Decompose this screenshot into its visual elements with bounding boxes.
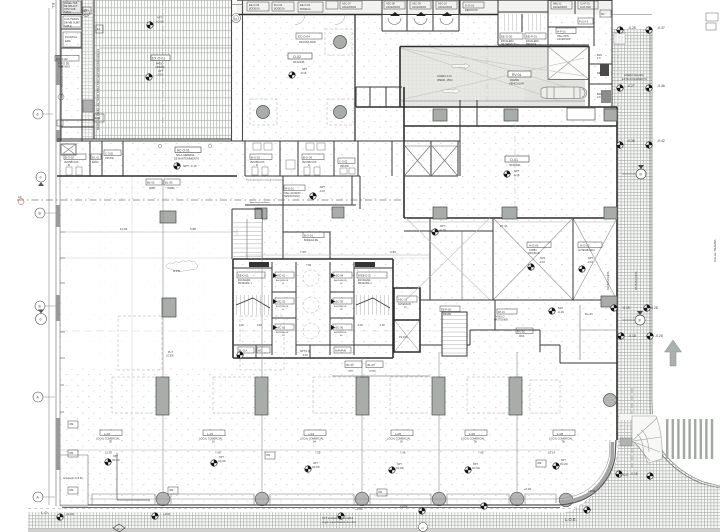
svg-text:-0.16: -0.16 xyxy=(302,354,308,357)
svg-text:TAB E: TAB E xyxy=(64,11,71,14)
wall x460 upper xyxy=(460,100,477,176)
svg-text:B-O-02: B-O-02 xyxy=(65,156,74,160)
svg-text:OFICINAS: OFICINAS xyxy=(528,252,540,255)
svg-text:NPT acabado L.O. a definir: NPT acabado L.O. a definir xyxy=(322,516,354,520)
svg-text:-0.16: -0.16 xyxy=(439,228,446,232)
H-S-01 hall walls xyxy=(283,176,360,232)
svg-text:ASC-06: ASC-06 xyxy=(334,326,344,330)
axis circles left xyxy=(33,109,57,502)
svg-text:±0.00: ±0.00 xyxy=(312,465,320,469)
H rooms diagonals xyxy=(493,218,617,300)
svg-text:SERVICIO: SERVICIO xyxy=(58,66,70,69)
svg-text:d: d xyxy=(40,318,42,322)
patio EX-O-01 fine grid top-left xyxy=(95,0,231,139)
svg-text:ASCENSOR: ASCENSOR xyxy=(276,279,289,282)
svg-text:H-P-01: H-P-01 xyxy=(557,30,566,34)
B-O-01 bodega label xyxy=(303,232,324,238)
grey block on sidewalk mid xyxy=(604,107,617,115)
svg-text:ESCALERA: ESCALERA xyxy=(238,279,251,282)
svg-text:±0.00: ±0.00 xyxy=(396,466,404,470)
toilet stalls small fixtures in band xyxy=(66,143,355,175)
grey up arrow right side xyxy=(665,340,682,366)
svg-text:d: d xyxy=(40,176,42,180)
svg-text:RN BANQUETA: RN BANQUETA xyxy=(634,271,638,290)
svg-text:RESPE: RESPE xyxy=(443,313,452,316)
PL-T box top right of O-01 xyxy=(567,108,595,120)
narrow cells right of ramp xyxy=(589,29,612,107)
svg-text:L.O.: L.O. xyxy=(41,510,49,515)
svg-text:-0.19: -0.19 xyxy=(622,306,630,310)
EE-O-30 / EE-P-01 labels xyxy=(500,33,523,39)
svg-text:DM: DM xyxy=(70,489,74,492)
svg-text:LO.B.E: LO.B.E xyxy=(166,355,174,358)
svg-text:ACERA VELADA: ACERA VELADA xyxy=(624,73,644,77)
svg-text:BODEGA: BODEGA xyxy=(274,8,285,11)
grey columns in hall xyxy=(162,298,176,317)
svg-text:AvPz/PvB: AvPz/PvB xyxy=(335,350,346,353)
svg-text:+0.08: +0.08 xyxy=(588,489,596,493)
EC-O-02 elevator shafts with X xyxy=(404,141,458,176)
svg-text:+0.02: +0.02 xyxy=(524,487,532,491)
svg-text:Abierta por definirse: Abierta por definirse xyxy=(250,201,270,204)
svg-text:-0.27: -0.27 xyxy=(627,84,635,88)
sidewalk bottom outer edge xyxy=(28,529,720,531)
svg-text:D-O-01: D-O-01 xyxy=(465,4,475,8)
svg-text:ASC-04: ASC-04 xyxy=(334,274,344,278)
core outer walls xyxy=(233,259,393,358)
circled marker bottom xyxy=(419,523,428,532)
svg-text:PASILLO: PASILLO xyxy=(495,316,505,319)
svg-text:B-O-03: B-O-03 xyxy=(303,156,312,160)
svg-text:11.63: 11.63 xyxy=(120,227,128,231)
svg-text:B-O-02: B-O-02 xyxy=(251,156,260,160)
O-01 office outline xyxy=(404,87,617,440)
svg-text:ASC-02: ASC-02 xyxy=(276,300,286,304)
svg-text:ASCENSOR: ASCENSOR xyxy=(334,279,347,282)
axis bubble at patio wall top xyxy=(232,14,241,23)
svg-text:CUA TRANS: CUA TRANS xyxy=(64,17,79,21)
storefront glass line xyxy=(60,455,88,505)
svg-text:VEHICULAR: VEHICULAR xyxy=(509,82,524,86)
svg-text:-0.15: -0.15 xyxy=(630,472,638,476)
top-left room labels xyxy=(63,1,81,13)
svg-text:-0.18: -0.18 xyxy=(628,334,636,338)
svg-text:DE SERVICIO: DE SERVICIO xyxy=(501,43,517,46)
svg-text:+0.01: +0.01 xyxy=(163,512,171,516)
svg-text:Plaza Prim: Plaza Prim xyxy=(356,263,369,267)
dimension lines xyxy=(60,229,237,235)
svg-text:R.P.B: R.P.B xyxy=(173,269,180,273)
X survey markers (two filled quarter style) xyxy=(0,0,1,1)
svg-text:DM: DM xyxy=(538,462,542,465)
top band small label boxes xyxy=(247,1,611,17)
svg-text:ESCALERA: ESCALERA xyxy=(358,279,371,282)
H-P-01 label xyxy=(556,28,576,34)
svg-text:según especificación de obra: según especificación de obra xyxy=(322,520,356,524)
core bottom cell labels xyxy=(238,347,254,353)
svg-text:27.41: 27.41 xyxy=(500,224,508,228)
building edge top right xyxy=(612,14,652,16)
svg-text:EX-O-02: EX-O-02 xyxy=(56,57,68,61)
svg-text:ASCENSOR: ASCENSOR xyxy=(438,6,452,9)
core inner dividers xyxy=(272,262,354,355)
svg-text:OFICINA: OFICINA xyxy=(509,163,520,167)
svg-text:(M/B): (M/B) xyxy=(348,371,354,373)
arrows in ramp xyxy=(452,63,470,68)
parking area lighter (fade dots) xyxy=(61,208,232,368)
svg-text:+0.00: +0.00 xyxy=(355,507,363,511)
svg-text:Plaza Prim: Plaza Prim xyxy=(250,263,263,267)
svg-text:7.08: 7.08 xyxy=(215,451,221,455)
svg-text:ASCENSOR: ASCENSOR xyxy=(276,305,289,308)
svg-text:C-O-01: C-O-01 xyxy=(339,160,348,164)
curb outer line xyxy=(652,29,720,486)
svg-text:M: M xyxy=(68,165,70,167)
svg-text:WC: WC xyxy=(258,350,262,353)
svg-text:DE MANTENIMIENTO: DE MANTENIMIENTO xyxy=(174,157,199,160)
svg-text:-0.36: -0.36 xyxy=(627,139,635,143)
left wall grey fill segments xyxy=(56,205,61,227)
svg-text:4.93: 4.93 xyxy=(257,324,262,327)
svg-text:7.05: 7.05 xyxy=(300,250,306,254)
triangles at elevators xyxy=(273,273,277,330)
svg-text:10.14: 10.14 xyxy=(548,451,555,455)
svg-text:SUB E: SUB E xyxy=(64,24,72,28)
svg-text:AUTES/BANCA: AUTES/BANCA xyxy=(578,249,595,252)
svg-text:ASCENSOR: ASCENSOR xyxy=(398,303,411,306)
svg-text:L-02: L-02 xyxy=(104,432,110,436)
svg-text:DM: DM xyxy=(70,452,74,455)
svg-text:VESTIBULOS: VESTIBULOS xyxy=(64,162,79,164)
band of rooms y141-176 top wall xyxy=(57,140,460,142)
svg-text:CUARTO BASURA CON AC: CUARTO BASURA CON AC xyxy=(60,65,64,100)
svg-text:L-05: L-05 xyxy=(395,432,401,436)
svg-text:VESTIBULOS: VESTIBULOS xyxy=(302,162,317,164)
svg-text:-0.28: -0.28 xyxy=(650,306,658,310)
svg-text:L.O.E.: L.O.E. xyxy=(565,517,577,522)
band rooms labels y141-176 xyxy=(64,154,86,160)
svg-text:5.88: 5.88 xyxy=(190,227,196,231)
small grid strip left of patio xyxy=(82,0,95,139)
corner wall poché xyxy=(560,442,613,502)
svg-text:OFICINA: OFICINA xyxy=(293,60,304,64)
diamond marker bottom left xyxy=(113,524,125,532)
secondary grid line in parking xyxy=(131,176,133,505)
svg-text:Puerta permanece muy de emerge: Puerta permanece muy de emergencia xyxy=(246,179,285,182)
O-02 oficina label xyxy=(288,53,312,59)
circle-B marker with arrow right side (upper) xyxy=(636,169,646,179)
core bottom cells xyxy=(256,345,330,358)
wall under H rooms xyxy=(430,218,617,300)
svg-text:EE-P-01: EE-P-01 xyxy=(526,35,537,39)
svg-text:B-L-01: B-L-01 xyxy=(92,157,100,160)
svg-text:BL-03: BL-03 xyxy=(368,363,376,367)
svg-text:BODEGA RE: BODEGA RE xyxy=(304,239,318,242)
svg-text:NPT -0.16: NPT -0.16 xyxy=(183,164,197,168)
svg-text:7.06: 7.06 xyxy=(400,451,406,455)
svg-text:L-03: L-03 xyxy=(207,432,213,436)
patio bottom wall xyxy=(57,138,231,140)
bottom wall of building left part xyxy=(60,505,88,507)
storefront jog xyxy=(117,453,150,500)
small rooms row left of ramp base xyxy=(356,87,402,107)
svg-text:AC-O-01: AC-O-01 xyxy=(177,149,190,153)
svg-text:6: 6 xyxy=(37,113,39,117)
svg-text:DEPOSITO: DEPOSITO xyxy=(465,9,478,12)
svg-text:±0.00: ±0.00 xyxy=(112,458,120,462)
RV-01 ramp label xyxy=(508,71,531,77)
BL-02 BL-03 boxes under band xyxy=(146,179,162,185)
left stair zigzag in core xyxy=(236,295,270,315)
svg-text:EMG: EMG xyxy=(65,39,71,43)
svg-text:+0.02: +0.02 xyxy=(400,504,408,508)
svg-text:B: B xyxy=(639,319,641,323)
circle-B marker with arrow right side xyxy=(635,315,645,325)
svg-text:PRINCIPAL 1: PRINCIPAL 1 xyxy=(238,282,253,285)
svg-text:M: M xyxy=(256,165,258,167)
svg-text:L.O.E: L.O.E xyxy=(620,473,629,477)
bottom +0.00 markers xyxy=(163,487,596,516)
svg-text:BAÑO: BAÑO xyxy=(92,161,99,164)
EC-O-04 label xyxy=(296,33,322,39)
svg-text:ASCENSOR: ASCENSOR xyxy=(334,305,347,308)
svg-text:C-O-01: C-O-01 xyxy=(105,152,114,156)
svg-text:H-O-02: H-O-02 xyxy=(580,244,590,248)
svg-text:EE-O-03: EE-O-03 xyxy=(249,3,260,7)
storefront circles xyxy=(156,492,170,506)
top band top edge partial xyxy=(237,0,612,2)
fan-shaped curb ramp at corner xyxy=(632,416,662,463)
svg-text:O-02: O-02 xyxy=(293,55,301,59)
elevator cells labels col2 xyxy=(333,272,352,278)
storefront mullion axes xyxy=(163,180,517,492)
patio right wall (double) xyxy=(232,0,243,141)
annex labels xyxy=(397,296,417,302)
svg-text:EE-O-01: EE-O-01 xyxy=(238,274,249,278)
revision cloud R.P.B xyxy=(166,261,198,272)
svg-text:-0.42: -0.42 xyxy=(657,139,665,143)
AC-O-01 sala general xyxy=(175,147,201,153)
band cell dividers xyxy=(90,141,392,176)
NPT markers in plan (survey symbols) xyxy=(56,17,654,521)
svg-text:ASC-13: ASC-13 xyxy=(398,298,408,302)
svg-text:B: B xyxy=(640,173,642,177)
svg-text:(S/MB): (S/MB) xyxy=(369,371,376,373)
svg-text:-0.16: -0.16 xyxy=(587,260,593,264)
svg-text:-0.16: -0.16 xyxy=(539,260,545,264)
svg-text:BL-02: BL-02 xyxy=(347,363,355,367)
svg-text:4.90: 4.90 xyxy=(380,324,385,327)
svg-text:E.L.: E.L. xyxy=(51,3,55,9)
SECTION: rooms and labels xyxy=(55,1,611,444)
FF-01 pasillo label xyxy=(497,309,517,314)
B-O-01 storage room xyxy=(283,232,330,259)
svg-text:-0.46: -0.46 xyxy=(657,84,665,88)
svg-text:±0.00: ±0.00 xyxy=(472,466,480,470)
svg-text:DEP: DEP xyxy=(597,72,602,75)
svg-text:-0.16: -0.16 xyxy=(557,310,564,314)
right vestibules xyxy=(250,154,272,160)
svg-text:H-S-01: H-S-01 xyxy=(285,187,294,191)
svg-text:ASCENSOR: ASCENSOR xyxy=(412,6,426,9)
svg-text:DM: DM xyxy=(170,489,174,492)
svg-text:ASCENSOR: ASCENSOR xyxy=(334,331,347,334)
svg-text:NPT: NPT xyxy=(320,185,326,189)
svg-text:ESTACIONAMIENTO: ESTACIONAMIENTO xyxy=(622,77,647,81)
svg-text:+0.00: +0.00 xyxy=(66,512,74,516)
svg-text:RV-01: RV-01 xyxy=(512,73,521,77)
small circled tags left bottom xyxy=(68,421,546,496)
svg-text:7.04: 7.04 xyxy=(306,263,312,267)
svg-text:DE MB SUBT: DE MB SUBT xyxy=(64,21,80,25)
svg-text:BL-02: BL-02 xyxy=(147,181,155,185)
svg-text:L-04: L-04 xyxy=(308,432,314,436)
svg-text:-0.26: -0.26 xyxy=(628,26,636,30)
svg-text:ASCENSOR: ASCENSOR xyxy=(276,331,289,334)
svg-text:-0.16: -0.16 xyxy=(300,71,307,75)
svg-text:VESTIBULOS: VESTIBULOS xyxy=(250,162,265,164)
svg-text:CUA TER: CUA TER xyxy=(580,6,591,9)
svg-text:DM: DM xyxy=(267,454,271,457)
svg-text:4.93: 4.93 xyxy=(358,324,363,327)
storefront columns (bars) xyxy=(156,377,169,415)
svg-text:PLANTA E: PLANTA E xyxy=(65,35,77,39)
core labels xyxy=(249,262,269,267)
top-left room column walls xyxy=(61,0,82,141)
B-L-02 xyxy=(516,328,533,334)
svg-text:B-L-03: B-L-03 xyxy=(585,313,593,316)
EX-O-02 label xyxy=(60,65,64,100)
svg-text:B-O-01: B-O-01 xyxy=(304,234,313,238)
svg-text:(M/B): (M/B) xyxy=(149,187,155,190)
stair block EE-O-30 / EE-P-01 xyxy=(498,0,589,45)
car in ramp xyxy=(541,87,587,99)
svg-text:EC-O-04: EC-O-04 xyxy=(298,35,310,39)
svg-text:±0.00: ±0.00 xyxy=(560,462,568,466)
patio axis dashed xyxy=(162,0,164,140)
svg-text:±0.00: ±0.00 xyxy=(218,459,226,463)
EE-F-02 label xyxy=(440,306,460,312)
svg-text:OFFICE: OFFICE xyxy=(105,157,114,160)
svg-text:B?EE-O-02: B?EE-O-02 xyxy=(358,275,371,278)
svg-text:-0.16: -0.16 xyxy=(513,173,520,177)
O-01 oficina label xyxy=(505,156,529,162)
locals labels bottom xyxy=(96,430,575,444)
svg-text:O-01: O-01 xyxy=(510,158,518,162)
svg-text:BL-03: BL-03 xyxy=(165,181,173,185)
lower right corridor walls xyxy=(420,300,540,352)
zebra crosswalk right bottom xyxy=(666,419,713,459)
svg-text:-0.26: -0.26 xyxy=(655,334,663,338)
svg-text:CALLE TRAMPA: CALLE TRAMPA xyxy=(713,239,717,262)
svg-text:B-L-02: B-L-02 xyxy=(517,330,525,334)
band bottom wall xyxy=(57,175,237,177)
svg-text:EX-O-01: EX-O-01 xyxy=(152,57,165,61)
dashed axis lines xyxy=(17,199,404,201)
top band bottom wall y=14.5 xyxy=(237,14,382,16)
svg-text:ASCENSOR: ASCENSOR xyxy=(557,38,571,41)
svg-text:OFFICE: OFFICE xyxy=(340,165,349,168)
dashed mezzanine boxes in locals xyxy=(112,377,162,413)
svg-text:ACERA 4:10: ACERA 4:10 xyxy=(437,74,452,78)
svg-text:(PEND. 15%): (PEND. 15%) xyxy=(437,78,453,82)
H-S-01 hall label xyxy=(284,185,305,191)
svg-text:7.05: 7.05 xyxy=(478,451,484,455)
patio label EX-O-01 xyxy=(151,55,170,61)
E.L. top left xyxy=(51,3,55,9)
ACERA text vertical xyxy=(606,73,717,290)
ramp walls xyxy=(400,46,589,48)
svg-text:ASCENSOR: ASCENSOR xyxy=(553,6,567,9)
svg-text:-0.16: -0.16 xyxy=(157,73,163,77)
elevator cells labels col1 xyxy=(275,272,294,278)
svg-text:PRINCIPAL 2: PRINCIPAL 2 xyxy=(358,282,373,285)
svg-text:ASCENSOR: ASCENSOR xyxy=(342,6,356,9)
svg-text:(S/MB): (S/MB) xyxy=(167,187,175,190)
grey pad at wall near fan xyxy=(620,438,632,446)
svg-text:EE-F-02: EE-F-02 xyxy=(441,308,452,312)
svg-text:EE-O-30: EE-O-30 xyxy=(501,35,513,39)
svg-text:+0.09: +0.09 xyxy=(156,20,164,24)
right side elevation markers xyxy=(622,26,665,476)
svg-text:11.30: 11.30 xyxy=(105,451,112,455)
toilet cells top right xyxy=(382,0,459,31)
svg-text:-0.16: -0.16 xyxy=(319,189,325,193)
svg-text:PROTEGIDO: PROTEGIDO xyxy=(494,320,508,322)
svg-text:4.93: 4.93 xyxy=(390,250,396,254)
svg-text:BT: BT xyxy=(84,10,88,13)
svg-text:PRIVADA: PRIVADA xyxy=(526,43,537,46)
lobby dashed circles xyxy=(303,270,319,286)
svg-text:L-08: L-08 xyxy=(557,432,563,436)
tactile box on sidewalk top xyxy=(614,33,625,44)
inner sidewalk boundary (L.O.E.) xyxy=(28,29,618,509)
svg-text:RH BANQUETA: RH BANQUETA xyxy=(606,271,610,290)
svg-text:OFICINA BOD: OFICINA BOD xyxy=(299,40,316,44)
O-02 room right wall xyxy=(354,14,356,141)
svg-text:SEMISOTANO: SEMISOTANO xyxy=(284,195,300,198)
svg-text:RAMPA: RAMPA xyxy=(510,78,519,82)
L.O.E. vertical dashed at corner xyxy=(631,388,633,470)
svg-text:Antepecho h=0.90: Antepecho h=0.90 xyxy=(63,477,83,480)
stair down to core xyxy=(232,209,262,259)
svg-text:ASC-01: ASC-01 xyxy=(276,274,286,278)
left lot line xyxy=(48,8,50,505)
ramp RV-01 grey area xyxy=(400,47,585,108)
svg-text:B-O-04: B-O-04 xyxy=(274,3,283,7)
svg-text:NPT: NPT xyxy=(588,256,594,260)
svg-text:MURO EN PANEL DE YESO PARA TIR: MURO EN PANEL DE YESO PARA TIRO EXTRACCI… xyxy=(96,49,100,130)
svg-text:1a: 1a xyxy=(234,17,238,21)
deposito D-O-01 xyxy=(460,0,498,45)
columns row under ramp xyxy=(433,109,447,121)
svg-text:WKS: WKS xyxy=(519,336,525,338)
svg-text:L-06: L-06 xyxy=(469,432,475,436)
canopy line in patio xyxy=(100,47,231,49)
svg-text:ASC-05: ASC-05 xyxy=(334,300,344,304)
svg-text:PLV 4-6: PLV 4-6 xyxy=(579,20,589,24)
O-01 bottom columns xyxy=(433,207,447,219)
svg-text:NPT(L.O): NPT(L.O) xyxy=(300,350,311,353)
driveway white band across sidewalk xyxy=(619,414,656,420)
svg-text:-0.37: -0.37 xyxy=(657,26,665,30)
svg-text:FP-01: FP-01 xyxy=(498,311,505,314)
H-O-01 and H-O-02 labels xyxy=(527,242,551,248)
toilet fixtures top xyxy=(388,18,453,25)
grey circle columns O-02 xyxy=(334,36,347,49)
left wall window stubs xyxy=(60,232,65,412)
svg-text:ASCENSOR: ASCENSOR xyxy=(386,6,400,9)
